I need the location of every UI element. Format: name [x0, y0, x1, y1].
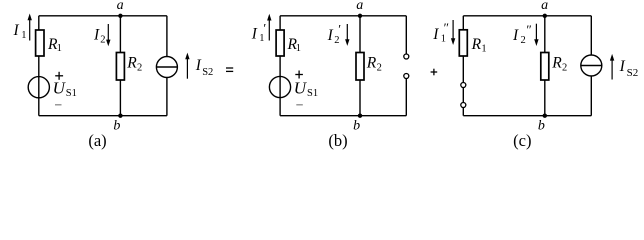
svg-text:I: I [619, 58, 626, 75]
svg-text:b: b [538, 119, 545, 134]
label I2' (circuit b) [327, 22, 342, 46]
label R2 (circuit a) [126, 55, 142, 74]
svg-text:2: 2 [521, 35, 526, 46]
svg-text:1: 1 [21, 30, 26, 41]
current arrow I2'' (circuit c) [534, 24, 538, 46]
wire: circuit (c) right branch lower segment [590, 76, 592, 116]
svg-text:R: R [471, 36, 482, 53]
label R1 (circuit b) [287, 36, 301, 54]
current arrow I2 (circuit a) [106, 24, 110, 46]
wire: circuit (b) middle branch upper segment [359, 16, 361, 53]
label U_S1 (circuit a) [53, 79, 77, 99]
label I2 (circuit a) [93, 27, 105, 46]
svg-text:′: ′ [263, 21, 266, 36]
resistor R2 (circuit b) [356, 53, 364, 81]
plus sign of U_S1 (circuit b) [295, 71, 303, 79]
resistor R2 (circuit c) [541, 53, 549, 81]
svg-text:R: R [551, 55, 562, 72]
current source I_S2 (circuit c) [581, 55, 602, 76]
wire: circuit (b) right branch lower segment [405, 79, 407, 116]
label I2'' (circuit c) [512, 22, 532, 46]
wire: circuit (c) top wire [463, 15, 591, 17]
svg-text:″: ″ [526, 22, 531, 37]
svg-text:2: 2 [100, 35, 105, 46]
label I_S2 (circuit c) [619, 58, 639, 79]
wire: circuit (b) bottom wire [280, 115, 406, 117]
wire: circuit (c) bottom wire [463, 115, 591, 117]
wire: circuit (c) middle branch lower segment [544, 80, 546, 116]
svg-text:I: I [251, 26, 258, 43]
terminal upper (circuit c, shorted voltage source) [461, 83, 466, 88]
wire: circuit (a) left branch through voltage source [38, 56, 40, 116]
wire: circuit (a) left branch upper segment [38, 16, 40, 30]
plus sign between (b) and (c) [431, 69, 438, 76]
wire: circuit (a) middle branch lower segment [119, 80, 121, 116]
svg-text:U: U [53, 79, 67, 98]
svg-text:a: a [117, 0, 124, 13]
svg-text:S2: S2 [202, 67, 213, 78]
current arrow I1 (circuit a) [28, 14, 32, 41]
label U_S1 (circuit b) [294, 79, 318, 99]
resistor R1 (circuit b) [276, 30, 284, 56]
svg-text:I: I [512, 27, 519, 44]
svg-text:S1: S1 [307, 88, 318, 99]
svg-text:R: R [126, 55, 137, 72]
open terminal upper (circuit b, removed current source) [404, 54, 409, 59]
node b (circuit c) [543, 114, 547, 118]
wire: circuit (a) top wire [39, 15, 167, 17]
node b (circuit b) [358, 114, 362, 118]
label I_S2 (circuit a) [195, 57, 213, 78]
terminal lower (circuit c, shorted voltage source) [461, 103, 466, 108]
wire: circuit (c) left branch lower segment (short circuit) [462, 56, 464, 116]
svg-text:I: I [93, 27, 100, 44]
minus sign of U_S1 (circuit b) [296, 104, 303, 106]
svg-text:1: 1 [296, 43, 301, 54]
label I1'' (circuit c) [432, 20, 449, 45]
label R1 (circuit c) [471, 36, 487, 54]
open terminal lower (circuit b, removed current source) [404, 74, 409, 79]
wire: circuit (c) left branch upper segment [462, 16, 464, 30]
wire: circuit (b) left branch through voltage source [279, 56, 281, 116]
equals sign between (a) and (b) [226, 68, 233, 71]
svg-text:b: b [113, 119, 120, 134]
svg-text:2: 2 [137, 63, 142, 74]
current source I_S2 (circuit a) [156, 57, 177, 78]
resistor R1 (circuit c) [459, 30, 467, 56]
label I1' (circuit b) [251, 21, 267, 45]
svg-text:a: a [541, 0, 548, 13]
current arrow I1' (circuit b) [267, 14, 271, 41]
node a (circuit c) [543, 14, 547, 18]
svg-text:S2: S2 [627, 67, 639, 79]
wire: circuit (a) right branch lower segment [166, 78, 168, 116]
svg-text:′: ′ [338, 22, 341, 37]
resistor R1 (circuit a) [36, 30, 44, 56]
svg-text:1: 1 [57, 43, 62, 54]
svg-text:I: I [432, 26, 439, 43]
label R1 (circuit a) [47, 36, 62, 54]
wire: circuit (c) right branch upper segment [590, 16, 592, 55]
wire: circuit (c) middle branch upper segment [544, 16, 546, 53]
node a (circuit b) [358, 14, 362, 18]
svg-text:1: 1 [481, 43, 486, 54]
svg-text:(b): (b) [328, 131, 347, 150]
wire: circuit (a) bottom wire [39, 115, 167, 117]
svg-text:2: 2 [377, 63, 382, 74]
svg-text:″: ″ [444, 20, 449, 35]
wire: circuit (b) right branch upper segment [405, 16, 407, 54]
voltage source U_S1 (circuit b) [269, 76, 290, 97]
label R2 (circuit b) [366, 55, 382, 74]
current arrow I1'' (circuit c, pointing down) [451, 20, 455, 45]
wire: circuit (b) top wire [280, 15, 406, 17]
svg-text:I: I [195, 57, 202, 74]
svg-text:S1: S1 [66, 88, 77, 99]
svg-text:(c): (c) [513, 131, 531, 150]
node b (circuit a) [118, 114, 122, 118]
svg-text:1: 1 [441, 34, 446, 45]
svg-text:R: R [366, 55, 377, 72]
svg-text:U: U [294, 79, 308, 98]
svg-text:a: a [356, 0, 363, 13]
wire: circuit (b) middle branch lower segment [359, 80, 361, 116]
wire: circuit (a) right branch upper segment [166, 16, 168, 57]
current arrow of I_S2 (circuit a) [185, 53, 189, 79]
svg-text:I: I [13, 22, 20, 39]
svg-text:2: 2 [562, 63, 567, 74]
resistor R2 (circuit a) [116, 53, 124, 81]
node a (circuit a) [118, 14, 122, 18]
svg-text:I: I [327, 27, 334, 44]
voltage source U_S1 (circuit a) [28, 77, 49, 98]
minus sign of U_S1 (circuit a) [55, 104, 62, 106]
label I1 (circuit a) [13, 22, 27, 41]
current arrow of I_S2 (circuit c) [610, 54, 614, 80]
wire: circuit (b) left branch upper segment [279, 16, 281, 30]
svg-text:(a): (a) [88, 131, 106, 150]
label R2 (circuit c) [551, 55, 567, 74]
wire: circuit (a) middle branch upper segment [119, 16, 121, 53]
current arrow I2' (circuit b) [345, 24, 349, 46]
plus sign of U_S1 (circuit a) [55, 72, 63, 80]
svg-text:b: b [353, 119, 360, 134]
